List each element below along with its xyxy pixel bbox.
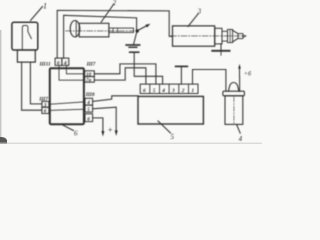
wire from Ш11 pin 6 to valve 3 (outer top wire) xyxy=(57,10,172,58)
carburetor contact dot xyxy=(136,29,139,32)
svg-text:4: 4 xyxy=(161,88,165,94)
svg-text:5: 5 xyxy=(153,88,156,94)
wire Ш7 pin 10 to control unit pin 5 xyxy=(94,64,156,84)
connector Ш7 pin 6 box xyxy=(42,107,49,113)
wire from component 1 left leg to connector Ш7 pin 6 xyxy=(22,62,42,110)
svg-text:1: 1 xyxy=(191,88,194,94)
harness internal wire Ш7 pin 3 to Ш8 pin 4 xyxy=(49,102,85,105)
terminal T2 bar xyxy=(176,65,188,67)
ground lead of component 3 xyxy=(220,44,222,50)
wire from component 1 right leg to connector Ш7 pin 3 xyxy=(30,62,41,104)
component 2 valve rod xyxy=(109,28,134,32)
valve 4 axis dash-dot xyxy=(233,97,235,124)
svg-text:5: 5 xyxy=(87,107,90,113)
connector Ш11 pin 6 box xyxy=(55,58,62,65)
component 3 sensor body xyxy=(173,26,215,46)
component 1 microswitch body xyxy=(12,22,38,50)
svg-text:1: 1 xyxy=(43,2,47,11)
component 1 microswitch internal contact xyxy=(22,25,31,49)
label 5 leader xyxy=(158,121,171,133)
component 2 rod thread ticks xyxy=(113,28,118,32)
svg-text:6: 6 xyxy=(57,60,60,66)
svg-text:5: 5 xyxy=(171,133,175,141)
ground symbol under component 3 xyxy=(212,50,229,52)
ground symbol under contact xyxy=(126,44,139,46)
svg-text:3: 3 xyxy=(171,88,175,94)
svg-text:4: 4 xyxy=(239,135,243,143)
scan artifact left edge xyxy=(0,30,1,144)
component 3 tip cylinder xyxy=(238,34,243,39)
ground lead from contact xyxy=(134,32,137,44)
svg-text:2: 2 xyxy=(181,88,185,94)
scan artifact bottom edge xyxy=(0,143,262,144)
control unit 5 box xyxy=(138,96,203,124)
connector Ш7 pin 3 box xyxy=(42,101,49,107)
connector Ш11 pin 4 box xyxy=(62,58,69,65)
svg-text:Ш11: Ш11 xyxy=(39,62,51,68)
component 3 neck xyxy=(222,31,228,41)
svg-text:+: + xyxy=(108,126,113,135)
valve 4 right terminal xyxy=(239,77,241,91)
harness internal wire Ш11 pin 4 to Ш7 pin 10 xyxy=(66,65,84,73)
label 3 leader xyxy=(188,14,198,27)
wire terminal T1 to control unit pin 4 xyxy=(134,53,162,84)
label 6 leader xyxy=(63,125,74,130)
valve 4 dome xyxy=(228,83,239,92)
valve 4 body xyxy=(225,96,243,125)
terminal T1 bar xyxy=(130,51,139,53)
svg-text:2: 2 xyxy=(113,0,117,7)
svg-text:+б: +б xyxy=(244,70,252,77)
component 3 nipple xyxy=(243,35,245,37)
contact lever arrow xyxy=(138,25,147,30)
label 4 leader xyxy=(237,125,240,133)
connector Ш7 pin 10 box xyxy=(85,71,95,77)
connector Ш7 pin 7а box xyxy=(85,77,95,83)
component 2 axis dash-dot line xyxy=(66,30,135,32)
svg-text:6: 6 xyxy=(44,109,47,115)
pin strip dividers xyxy=(150,84,189,93)
wire Ш8 pin 4 to control unit case xyxy=(93,96,139,102)
connector Ш8 pin 6 box xyxy=(85,114,93,122)
svg-text:6: 6 xyxy=(87,116,90,122)
wire from Ш11 pin 4 to carburetor contact (inner top wire) xyxy=(64,15,137,58)
harness internal wire Ш7 pin 6 to Ш8 pin 5 xyxy=(49,109,85,110)
battery plus arrow at valve 4 xyxy=(239,67,241,77)
label 2 leader xyxy=(101,4,114,22)
svg-text:Ш8: Ш8 xyxy=(85,92,95,98)
connector Ш8 pin 4 box xyxy=(85,98,93,105)
scan artifact bottom-left blob xyxy=(0,137,7,144)
component 2 solenoid valve body xyxy=(79,23,109,37)
wire control unit pin 1 to valve 4 left terminal xyxy=(193,70,226,92)
harness block 6 outline xyxy=(50,68,84,124)
svg-text:6: 6 xyxy=(143,88,146,94)
component 3 cone tip xyxy=(233,30,238,42)
svg-text:7а: 7а xyxy=(86,78,92,84)
wire Ш8 pin 6 to battery plus xyxy=(93,118,103,132)
component 1 connector base xyxy=(17,50,35,62)
component 2 cap disc line xyxy=(75,21,77,37)
control unit pin strip xyxy=(140,84,198,93)
component 3 axis dash-dot line xyxy=(170,35,246,37)
wire Ш8 pin 5 to battery plus xyxy=(93,107,117,133)
component 3 ring nut xyxy=(228,29,233,42)
component 2 solenoid valve cap xyxy=(70,21,80,37)
component 3 step xyxy=(215,28,222,44)
wire control unit pin 2 to terminal T2 xyxy=(180,67,182,84)
label 1 leader xyxy=(31,7,43,21)
svg-text:Ш7: Ш7 xyxy=(86,61,96,67)
svg-text:6: 6 xyxy=(74,130,78,138)
wire Ш7 pin 7а to control unit pin 6 xyxy=(94,68,146,84)
valve 4 flange xyxy=(223,91,245,96)
harness internal wire Ш11 pin 6 to Ш7 pin 7а xyxy=(59,65,85,80)
connector Ш8 pin 5 box xyxy=(85,105,93,112)
svg-text:3: 3 xyxy=(197,7,202,15)
